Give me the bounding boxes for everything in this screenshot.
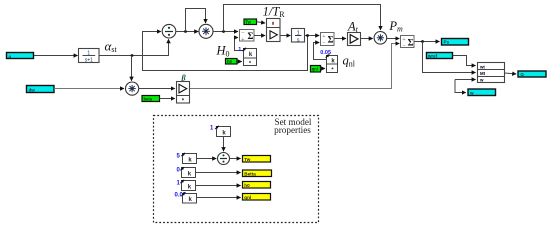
input tag a	[7, 53, 34, 60]
output tag Ps	[442, 39, 469, 46]
node head junction	[222, 30, 225, 33]
goto tag h0 (yellow)	[243, 182, 271, 189]
gain block k row3	[180, 180, 195, 191]
svg-text:a: a	[9, 54, 12, 59]
wire wref to machine wt input	[453, 56, 476, 66]
svg-text:−: −	[402, 44, 405, 50]
sum block output (plus minus)	[401, 36, 415, 50]
gain block At	[348, 33, 361, 46]
block dot (H0)	[244, 58, 257, 66]
wire k top to divide2	[223, 137, 225, 152]
wire multiply to sum H0	[213, 31, 238, 33]
wire q feedback to divide left	[143, 32, 308, 71]
wire output sum to Ps tag	[414, 41, 440, 43]
svg-text:Tw: Tw	[245, 20, 251, 25]
wire square loop over multiply	[186, 9, 206, 32]
wire divide2 to Tw yellow	[230, 158, 241, 160]
wire sum qnl to At gain	[334, 38, 346, 40]
wire Tw to 1/TR block	[257, 22, 265, 23]
svg-text:1: 1	[238, 47, 241, 53]
gain block k row4	[181, 193, 196, 203]
wire integrator to sum qnl	[305, 35, 320, 37]
input tag wref	[427, 53, 453, 59]
svg-text:qnl: qnl	[244, 195, 251, 200]
svg-text:Σ: Σ	[328, 35, 334, 45]
svg-text:w: w	[479, 78, 484, 83]
wire k row2 to Betta yellow	[196, 172, 241, 174]
output tag w	[468, 89, 496, 96]
wire qnl gain to sum qnl minus input	[314, 43, 327, 60]
output tag G	[518, 71, 546, 77]
svg-text:dw: dw	[29, 87, 36, 92]
constant tag h0 (green)	[226, 59, 238, 65]
wire sum H0 to 1/TR block	[254, 35, 265, 37]
svg-text:Σ: Σ	[408, 37, 414, 47]
node output junction	[421, 40, 424, 43]
wire h0 tag to dot block	[237, 61, 242, 63]
svg-text:beta: beta	[144, 96, 153, 101]
svg-text:+: +	[241, 37, 244, 43]
gain block k row2	[180, 167, 195, 177]
wire Pm multiply to output sum	[387, 38, 400, 40]
wire k row3 to h0 yellow	[196, 185, 241, 187]
machine block wt Mt w	[478, 63, 505, 83]
svg-text:w: w	[469, 90, 474, 95]
svg-text:−: −	[322, 41, 325, 47]
wire machine w output	[455, 79, 476, 81]
svg-text:wt: wt	[479, 64, 485, 69]
svg-text:qnl: qnl	[312, 67, 318, 72]
wire machine to G tag	[505, 73, 517, 74]
sum block H0 (minus plus)	[240, 30, 255, 44]
gain block k row1	[181, 153, 196, 164]
divide block 2	[218, 153, 230, 165]
svg-text:+: +	[402, 37, 405, 43]
constant tag beta (green)	[142, 96, 160, 102]
svg-text:s: s	[297, 37, 300, 43]
wire divide to multiply	[176, 31, 198, 33]
constant tag Tw (green)	[244, 19, 257, 25]
svg-text:properties: properties	[274, 125, 311, 135]
svg-text:+: +	[322, 34, 325, 40]
wire alpha_st to divide bottom	[99, 39, 169, 55]
dashed annotation box	[154, 116, 319, 223]
goto tag Tw (yellow)	[243, 156, 271, 163]
svg-text:Ps: Ps	[444, 40, 450, 45]
wire beta tag to beta gain	[160, 98, 175, 100]
gain block beta (two-row)	[177, 82, 190, 104]
svg-text:wref: wref	[427, 53, 438, 58]
divide block	[162, 24, 176, 38]
svg-text:Tw: Tw	[244, 157, 250, 162]
wire a to transfer fn	[34, 55, 78, 57]
node q junction	[306, 34, 309, 37]
wire k row1 to divide2	[197, 158, 217, 160]
svg-text:h0: h0	[244, 183, 250, 188]
svg-text:Betta: Betta	[244, 171, 256, 176]
node alpha_st junction	[131, 54, 134, 57]
goto tag qnl (yellow)	[243, 194, 271, 201]
svg-text:Σ: Σ	[248, 31, 254, 41]
gain block k (H0)	[242, 48, 256, 58]
wire qnl tag to dot block	[321, 68, 325, 70]
gain block 1/TR (two-row)	[267, 19, 281, 42]
svg-text:h0: h0	[227, 59, 233, 64]
wire H0 gain to sum H0 plus input	[235, 38, 244, 51]
node divide out junction	[184, 30, 187, 33]
wire alpha_st down to multiplier	[131, 56, 133, 81]
transfer function 1/(s+1)	[79, 49, 100, 64]
input tag dw	[27, 86, 55, 93]
gain block k (qnl)	[326, 54, 338, 64]
wire w branch to w tag	[455, 80, 466, 93]
multiply block beta	[126, 82, 139, 95]
wire speed feedback to output sum	[190, 44, 400, 89]
sum block qnl (plus minus)	[321, 33, 335, 47]
svg-text:s+1: s+1	[85, 57, 93, 63]
svg-text:−: −	[241, 30, 244, 36]
wire dw to multiply beta	[54, 88, 124, 90]
wire head feedback top to Pm multiply	[224, 5, 381, 32]
integrator 1/s	[292, 29, 305, 44]
gain block k top	[215, 126, 231, 137]
wire output to machine Mt input	[423, 42, 476, 73]
multiply block (square)	[199, 24, 213, 38]
block dot (qnl)	[327, 64, 338, 73]
svg-text:Mt: Mt	[480, 71, 486, 76]
multiply block Pm	[374, 32, 387, 45]
wire 1/TR to integrator	[280, 35, 290, 37]
wire At to Pm multiply	[361, 38, 373, 40]
wire multiply to beta gain	[139, 88, 175, 90]
wire k row4 to qnl yellow	[197, 197, 241, 199]
svg-text:G: G	[520, 72, 524, 77]
goto tag Betta (yellow)	[243, 170, 272, 177]
constant tag qnl (green)	[311, 66, 321, 73]
